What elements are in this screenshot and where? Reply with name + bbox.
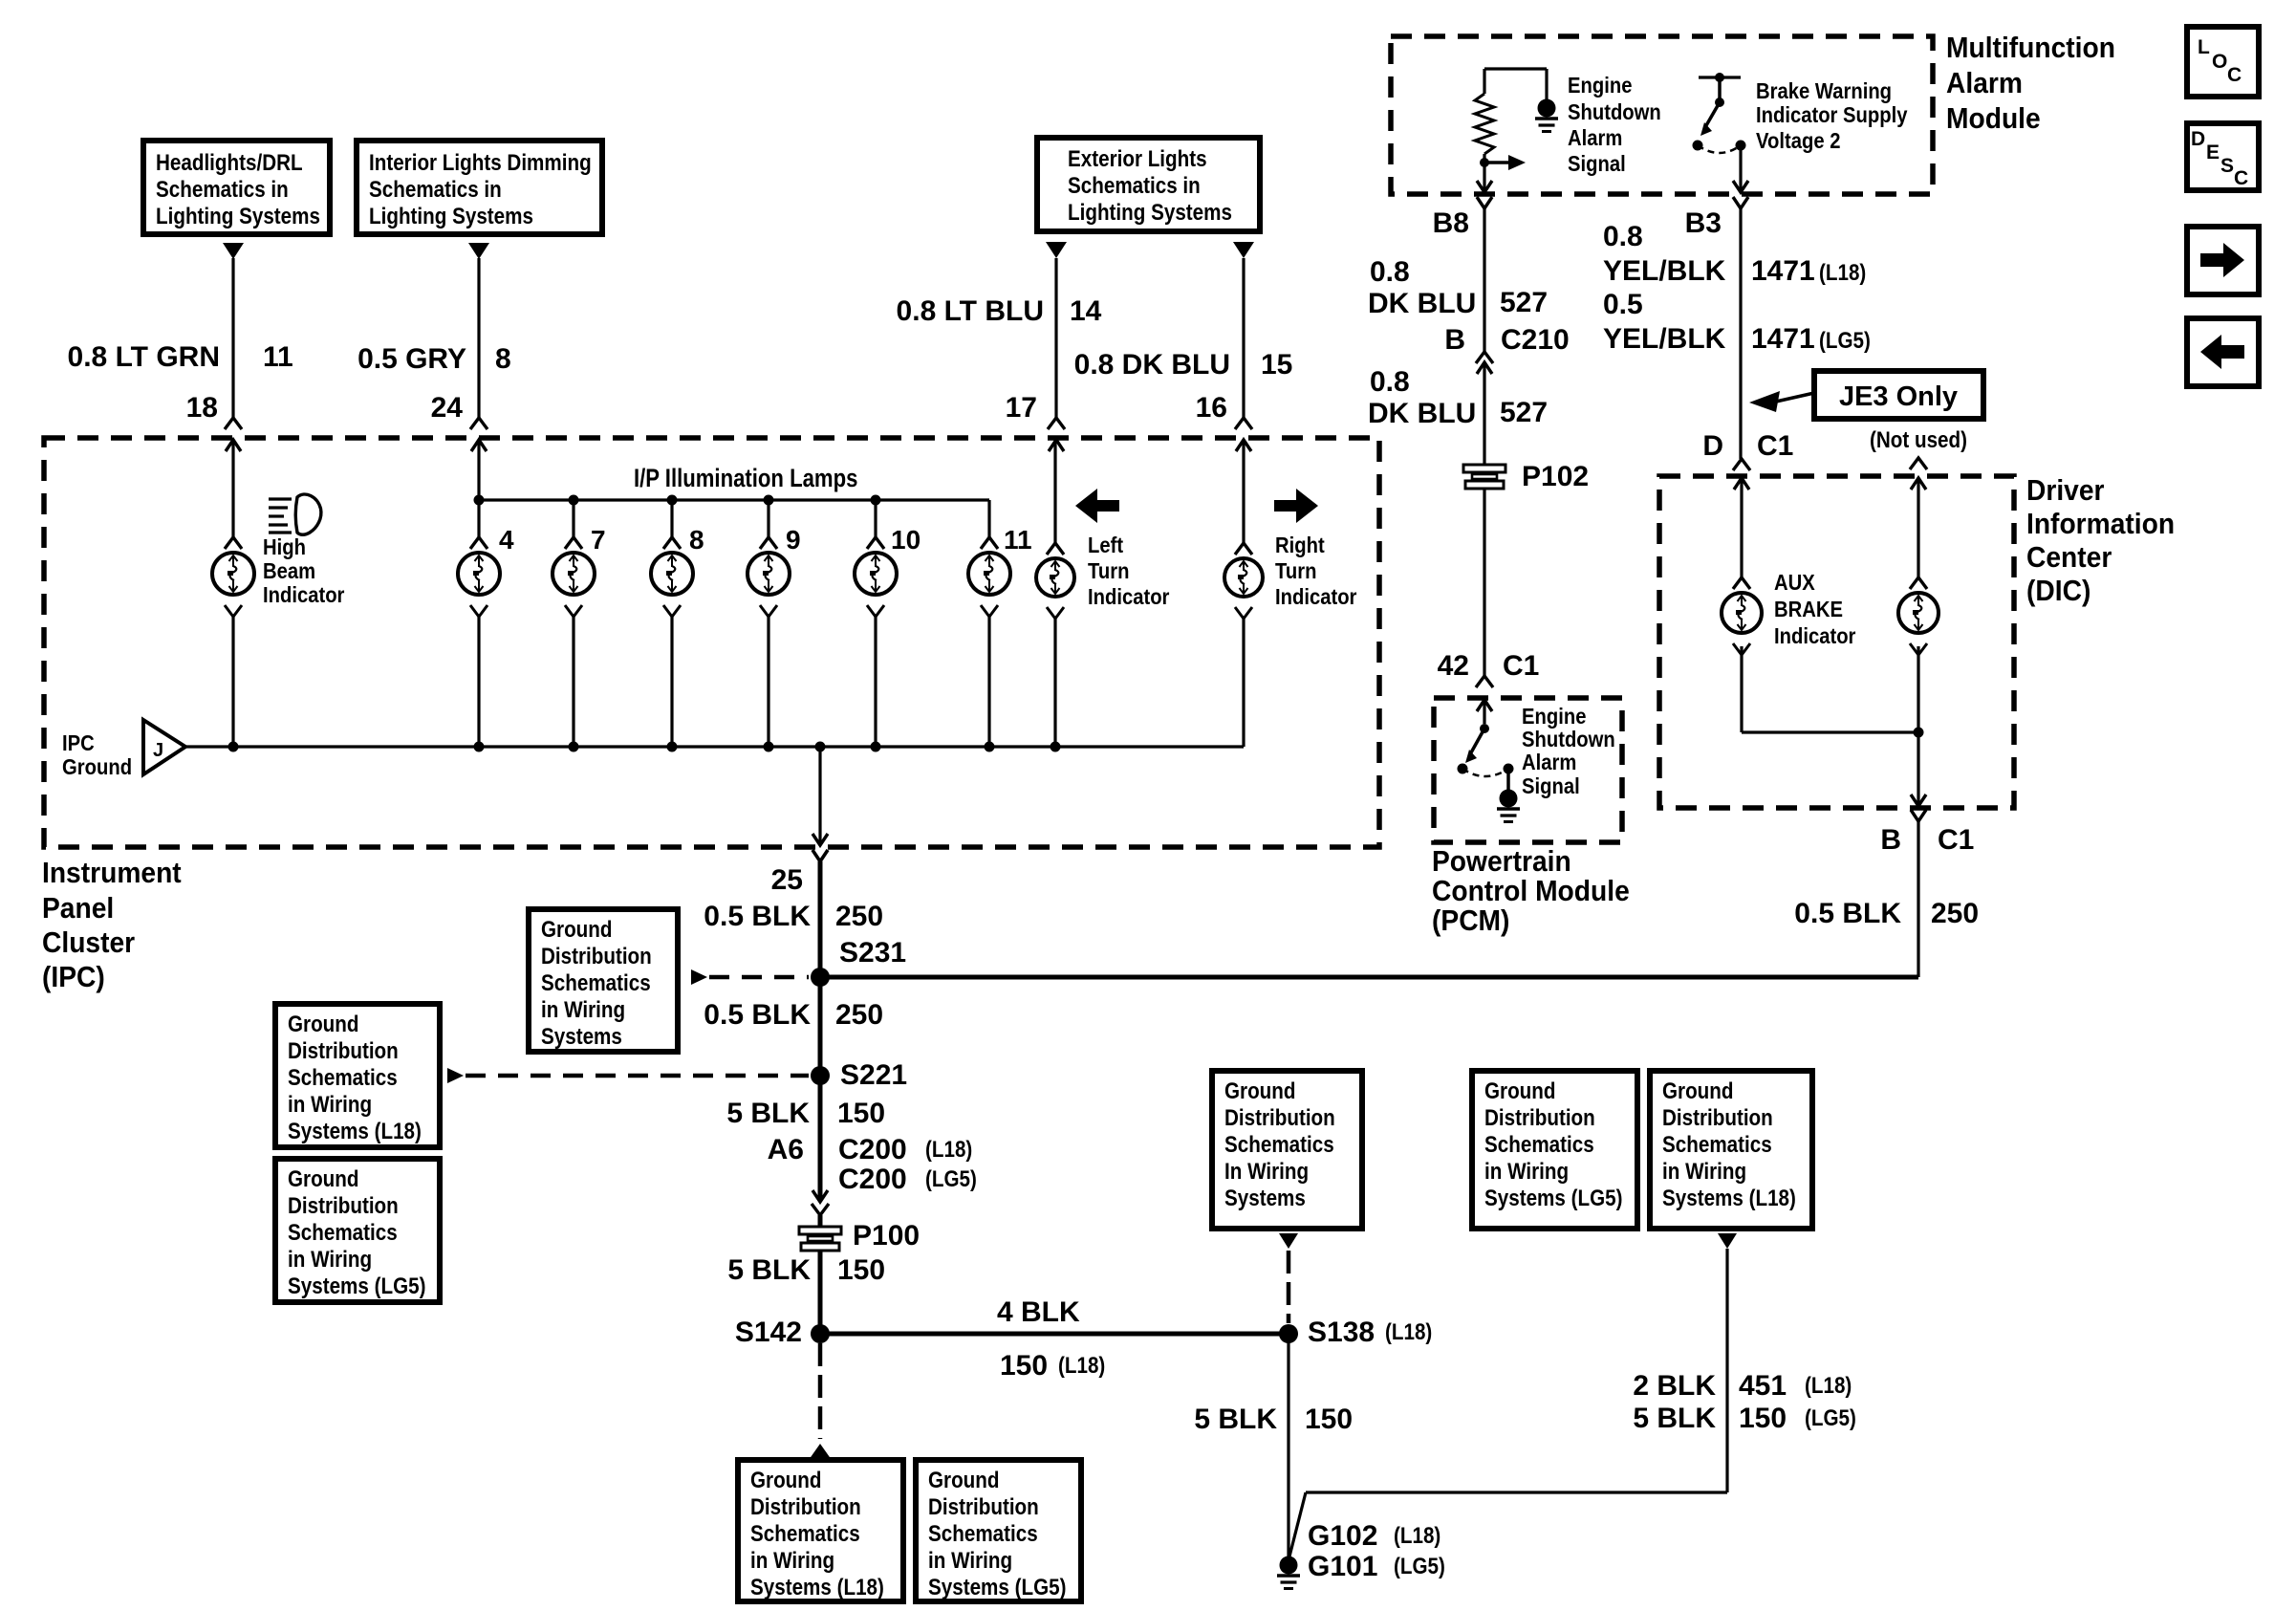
node on lamp bus at lamp 10 [871,495,881,506]
connector terminal pin 25 at IPC bottom [812,834,828,861]
svg-text:in Wiring: in Wiring [750,1548,834,1574]
svg-text:0.8 DK BLU: 0.8 DK BLU [1074,349,1230,381]
svg-text:Distribution: Distribution [750,1494,861,1520]
svg-text:Turn: Turn [1088,558,1129,584]
svg-text:C200: C200 [838,1164,907,1195]
ground G102/G101 [1277,1557,1300,1589]
pin label A6 [768,1134,804,1165]
svg-text:S231: S231 [839,937,906,969]
node on lamp bus at wire 24 [474,495,485,506]
svg-text:(DIC): (DIC) [2026,575,2090,608]
I/P illumination lamp 2 [552,537,595,617]
connector fork at PCM pin 42 [1476,676,1493,687]
wire left turn lamp to ground bus [1053,619,1056,747]
pin label 42 [1438,650,1469,682]
I/P illumination lamp 4 [747,537,790,617]
reference box: Ground Distribution Schematics in Wiring Systems (L18) bottom [738,1460,903,1601]
wire 0.8 LT BLU ckt 14 (left turn to IPC pin 17) [1054,258,1057,418]
wire label 527 (upper) [1500,287,1548,318]
internal ground drop in module [1545,69,1548,99]
label Right Turn Indicator [1275,533,1357,610]
svg-text:D: D [1702,430,1723,462]
svg-text:Alarm: Alarm [1568,125,1622,151]
svg-text:Schematics: Schematics [928,1521,1038,1547]
riser to I/P lamp pin 8 [670,500,673,537]
wire right turn lamp down to ground bus corner [1242,619,1245,747]
node on IPC ground bus x=916 [871,742,881,752]
switch throw dashed arc [1698,145,1741,153]
label AUX BRAKE Indicator [1774,570,1856,649]
svg-text:Beam: Beam [263,558,315,584]
svg-text:Indicator: Indicator [263,582,345,608]
svg-text:527: 527 [1500,397,1548,428]
svg-text:Cluster: Cluster [42,926,136,960]
svg-text:(Not used): (Not used) [1870,427,1967,453]
svg-text:11: 11 [263,341,293,373]
left turn indicator lamp [1036,543,1074,619]
ground symbol (engine shutdown alarm) [1535,99,1558,132]
node joining DIC lamps [1914,728,1924,738]
Driver Information Center dashed outline [1659,476,2014,808]
svg-text:Center: Center [2026,541,2112,575]
unused terminal fork [1910,458,1927,469]
riser to I/P lamp pin 11 [987,500,990,537]
svg-text:C210: C210 [1501,324,1570,356]
svg-text:527: 527 [1500,287,1548,318]
reference box: Ground Distribution Schematics in Wiring Systems (LG5) bottom [916,1460,1081,1601]
node on IPC ground bus x=858 [815,742,826,752]
pin label 8 [495,343,511,375]
brake warning switch fixed bar [1699,76,1741,78]
svg-text:Signal: Signal [1522,773,1580,799]
svg-text:(LG5): (LG5) [1394,1554,1445,1579]
svg-text:In Wiring: In Wiring [1224,1159,1309,1185]
node on IPC ground bus x=804 [764,742,774,752]
svg-text:5 BLK: 5 BLK [727,1254,811,1286]
connector fork below module (B8) [1477,197,1492,208]
svg-text:Multifunction: Multifunction [1946,32,2115,65]
connector label C1 (DIC B) [1938,824,1974,856]
svg-text:Ground: Ground [62,754,132,780]
svg-text:Indicator Supply: Indicator Supply [1756,102,1908,128]
label Brake Warning Indicator Supply Voltage 2 [1756,78,1908,154]
svg-text:DK BLU: DK BLU [1368,288,1476,319]
svg-text:Systems (LG5): Systems (LG5) [1484,1186,1622,1211]
splice label S231 [839,937,906,969]
wire label 5 BLK (right) [1633,1403,1716,1434]
svg-text:(L18): (L18) [1819,260,1866,286]
svg-text:DK BLU: DK BLU [1368,398,1476,429]
svg-text:11: 11 [1004,525,1032,555]
svg-text:(IPC): (IPC) [42,961,105,994]
svg-text:Ground: Ground [1662,1078,1734,1104]
svg-text:B: B [1880,824,1901,856]
wire into PCM switch [1483,700,1485,724]
wire label DK BLU (lower) [1368,398,1476,429]
svg-text:C200: C200 [838,1134,907,1165]
pin label 25 [771,864,803,896]
svg-text:25: 25 [771,864,803,896]
svg-text:B8: B8 [1433,207,1469,239]
arrowhead from right L18 box [1718,1233,1737,1249]
svg-text:Distribution: Distribution [288,1193,399,1219]
node on IPC ground bus x=600 [569,742,579,752]
wire label 0.8 LT BLU [897,295,1044,327]
pin label B [1444,324,1465,356]
svg-text:Schematics: Schematics [541,970,651,996]
svg-text:Schematics: Schematics [288,1065,398,1091]
Multifunction Alarm Module name [1946,32,2115,136]
splice S221 [811,1066,830,1085]
connector fork below IPC (pin 25) [812,850,828,861]
svg-text:C: C [2234,167,2248,189]
label Left Turn Indicator [1088,533,1170,610]
right turn arrow icon [1274,489,1318,523]
wire label 0.5 BLK (DIC) [1794,898,1901,929]
connector label C200 (LG5) [838,1164,977,1195]
svg-text:Ground: Ground [750,1468,822,1493]
svg-text:Systems (LG5): Systems (LG5) [288,1274,425,1299]
high beam indicator lamp [212,537,254,617]
svg-text:(L18): (L18) [925,1137,972,1163]
wire IPC ground bus to pin 25 exit [818,747,821,845]
svg-text:17: 17 [1006,392,1037,424]
svg-text:0.8 LT GRN: 0.8 LT GRN [68,341,220,373]
node below resistor [1480,158,1489,167]
svg-text:Powertrain: Powertrain [1432,845,1571,879]
splice S231 [811,968,830,987]
svg-text:BRAKE: BRAKE [1774,597,1843,622]
wire C200 to P100 [818,1215,823,1334]
pin label B8 [1433,207,1469,239]
connector label C200 (L18) [838,1134,972,1165]
wire 0.8 DK BLU ckt 15 (right turn to IPC pin 16) [1242,258,1245,418]
svg-text:Distribution: Distribution [1224,1105,1335,1131]
pin label 17 [1006,392,1037,424]
arrowhead from Headlights/DRL box [223,243,244,259]
connector terminal pin 17 at IPC [1048,418,1065,451]
wire 0.8 DK BLU 527 (B8 to C210) [1483,208,1485,352]
svg-text:Systems: Systems [541,1024,622,1050]
splice label S138 (L18) [1308,1317,1432,1348]
wire 0.5 BLK 250 (S231 to S221) [818,977,823,1076]
PCM switch contact right [1504,764,1514,774]
svg-text:14: 14 [1070,295,1102,327]
svg-text:18: 18 [186,392,218,424]
reference box: Interior Lights Dimming Schematics in Lighting Systems [357,141,602,234]
svg-text:Schematics in: Schematics in [1068,173,1201,199]
engine shutdown alarm signal arrow [1484,155,1526,170]
svg-text:J: J [153,740,163,761]
wire I/P lamp 3 to ground bus [670,617,673,747]
arrowhead from S138 box [1279,1233,1298,1249]
wire 0.5 BLK 250 (IPC to S231) [818,861,823,977]
wire 1471 (B3 to DIC pin D) [1739,208,1742,459]
svg-text:0.5 BLK: 0.5 BLK [1794,898,1901,929]
I/P illumination lamp 6 [968,537,1010,617]
IPC internal ground bus [185,745,1244,748]
svg-text:Driver: Driver [2026,474,2105,508]
reference box: Headlights/DRL Schematics in Lighting Systems [143,141,330,234]
svg-text:Ground: Ground [928,1468,1000,1493]
label Engine Shutdown Alarm Signal (module) [1568,73,1661,177]
pin label B (DIC) [1880,824,1901,856]
wire AUX BRAKE lamp to junction [1742,646,1918,732]
I/P illumination lamp 1 [458,537,500,617]
svg-text:250: 250 [1931,898,1979,929]
wire 4 BLK 150 (S142 to S138) [820,1332,1289,1337]
label I/P Illumination Lamps [634,465,857,493]
riser to I/P lamp pin 10 [874,500,877,537]
svg-text:Voltage 2: Voltage 2 [1756,128,1840,154]
wire 2 BLK 451 / 5 BLK 150 to ground [1289,1249,1727,1557]
terminal arrow inside DIC (not used pin) [1911,478,1926,490]
svg-text:150: 150 [1000,1350,1048,1382]
node on IPC ground bus x=1104 [1051,742,1061,752]
svg-text:(L18): (L18) [1805,1373,1852,1399]
wire label 0.8 DK BLU [1074,349,1230,381]
svg-text:Module: Module [1946,102,2041,136]
dashed wire to S138 [1287,1251,1291,1323]
wire label 2 BLK [1633,1370,1716,1402]
switch contact right [1736,141,1746,151]
svg-text:9: 9 [786,525,801,555]
wire from IPC pin 24 to I/P lamp bus [477,440,480,537]
svg-text:JE3 Only: JE3 Only [1839,381,1958,412]
PCM name [1432,845,1630,938]
PCM switch contact left [1458,764,1468,774]
svg-text:Signal: Signal [1568,151,1626,177]
svg-text:0.8: 0.8 [1603,221,1643,252]
svg-text:Indicator: Indicator [1774,623,1856,649]
switch stem [1718,77,1722,102]
svg-text:250: 250 [835,999,883,1031]
svg-text:0.8 LT BLU: 0.8 LT BLU [897,295,1044,327]
left turn arrow icon [1075,489,1119,523]
riser to I/P lamp pin 7 [572,500,574,537]
svg-text:Headlights/DRL: Headlights/DRL [156,150,303,176]
label P102 [1522,461,1589,492]
wire label 150 (S221) [837,1098,885,1129]
svg-text:Schematics: Schematics [1662,1132,1772,1158]
reference box: Ground Distribution Schematics in Wiring Systems (L18) left [275,1004,440,1147]
wire junction to module pin B8 [1483,163,1485,192]
legend icon DESC [2187,123,2259,190]
wire label YEL/BLK (L18) [1603,255,1726,287]
svg-text:Distribution: Distribution [928,1494,1039,1520]
in-line connector C200 [812,1190,829,1215]
svg-text:I/P Illumination Lamps: I/P Illumination Lamps [634,465,857,493]
node on bar [1715,73,1724,82]
svg-text:C1: C1 [1938,824,1974,856]
pin label 11 (lamp) [1004,525,1032,555]
terminal arrow at module edge (B8) [1477,181,1492,192]
svg-text:Distribution: Distribution [1484,1105,1595,1131]
wire label 0.5 GRY [357,343,466,375]
wire 527 from P102 to PCM pin 42 [1483,490,1485,676]
wire label 0.5 BLK (upper) [704,901,811,932]
PCM switch pivot node [1480,724,1489,733]
label (Not used) [1870,427,1967,453]
svg-text:Lighting Systems: Lighting Systems [156,204,320,229]
svg-text:Instrument: Instrument [42,857,182,890]
svg-text:Schematics in: Schematics in [156,177,289,203]
svg-text:Alarm: Alarm [1946,67,2023,100]
svg-text:in Wiring: in Wiring [288,1247,372,1273]
wire I/P lamp 2 to ground bus [572,617,574,747]
pin label 7 [591,525,606,555]
svg-text:Schematics: Schematics [1224,1132,1334,1158]
wire 0.8 LT GRN ckt 11 (Headlights/DRL to IPC pin 18) [231,258,234,418]
svg-text:Distribution: Distribution [288,1038,399,1064]
wire label 451 (L18) [1739,1370,1852,1402]
wire high beam lamp to IPC ground bus [231,617,234,747]
connector label C1 (DIC D) [1757,430,1793,462]
svg-text:Engine: Engine [1522,704,1586,729]
dashed leader to S231 [691,969,809,985]
svg-text:YEL/BLK: YEL/BLK [1603,255,1726,287]
connector fork below module (B3) [1733,197,1748,208]
svg-text:Ground: Ground [288,1012,359,1037]
reference box: Exterior Lights Schematics in Lighting Systems [1037,138,1260,231]
svg-text:IPC: IPC [62,730,95,756]
svg-text:A6: A6 [768,1134,804,1165]
wire 5 BLK 150 (S221 to C200) [818,1076,823,1201]
svg-text:4: 4 [499,525,514,555]
in-line connector C210 [1476,352,1493,374]
connector terminal pin 18 at IPC [225,418,242,451]
svg-text:0.8: 0.8 [1370,256,1410,288]
svg-text:Lighting Systems: Lighting Systems [1068,200,1232,226]
svg-text:in Wiring: in Wiring [288,1092,372,1118]
suffix (L18) for 1471 [1819,260,1866,286]
legend icon LOC [2187,27,2259,97]
wire DIC pin D to AUX BRAKE lamp [1740,478,1743,577]
wire I/P lamp 6 to ground bus [987,617,990,747]
wire label 5 BLK (P100) [727,1254,811,1286]
wire 0.8 DK BLU 527 (C210 to P102) [1483,362,1485,465]
wire label DK BLU (upper) [1368,288,1476,319]
pin label D [1702,430,1723,462]
svg-text:8: 8 [495,343,511,375]
wire label 0.8 (1471 L18) [1603,221,1643,252]
reference box: Ground Distribution Schematics in Wiring Systems (LG5) right [1472,1071,1637,1229]
Multifunction Alarm Module dashed outline [1391,36,1933,194]
svg-text:0.8: 0.8 [1370,366,1410,398]
pin label B3 [1685,207,1722,239]
connector label C210 [1501,324,1570,356]
wire 0.5 BLK 250 from DIC to S231 [820,821,1918,977]
connector fork at DIC pin D [1733,459,1750,470]
svg-text:0.5: 0.5 [1603,289,1643,320]
pin label 15 [1261,349,1292,381]
svg-text:5 BLK: 5 BLK [1633,1403,1716,1434]
svg-text:150: 150 [837,1254,885,1286]
wire not-used pin to second lamp [1917,478,1919,577]
svg-text:S142: S142 [735,1317,802,1348]
svg-text:0.5 BLK: 0.5 BLK [704,999,811,1031]
svg-text:S221: S221 [840,1059,907,1091]
node on IPC ground bus x=244 [228,742,239,752]
wire resistor top link [1484,69,1547,94]
svg-text:Control Module: Control Module [1432,875,1630,908]
svg-text:4 BLK: 4 BLK [997,1296,1080,1328]
svg-text:0.5 BLK: 0.5 BLK [704,901,811,932]
node on IPC ground bus x=1035 [985,742,995,752]
connector label C1 (PCM) [1503,650,1539,682]
svg-text:Exterior Lights: Exterior Lights [1068,146,1207,172]
wire I/P lamp 4 to ground bus [767,617,769,747]
wire label 5 BLK (S221) [726,1098,810,1129]
wire label 1471 (LG5) [1751,323,1815,355]
riser to I/P lamp pin 9 [767,500,769,537]
svg-text:L: L [2198,36,2210,58]
svg-text:in Wiring: in Wiring [541,997,625,1023]
splice S138 [1279,1324,1298,1343]
reference box: Ground Distribution Schematics in Wiring Systems (S231) [529,909,678,1052]
terminal arrow inside PCM [1477,700,1492,711]
AUX BRAKE indicator lamp [1722,577,1762,655]
svg-text:Indicator: Indicator [1275,584,1357,610]
wire right contact to module pin B3 [1739,145,1742,190]
connector fork below DIC (pin B) [1911,810,1926,821]
svg-text:Alarm: Alarm [1522,750,1576,775]
svg-text:Schematics: Schematics [750,1521,860,1547]
svg-text:Ground: Ground [541,917,613,943]
wire label 250 (upper) [835,901,883,932]
svg-text:451: 451 [1739,1370,1787,1402]
wire from IPC pin 18 to high beam indicator lamp [231,440,234,537]
svg-text:Lighting Systems: Lighting Systems [369,204,533,229]
svg-text:G102: G102 [1308,1520,1377,1552]
wire I/P lamp 1 to ground bus [477,617,480,747]
wire second lamp to DIC pin B [1917,646,1919,806]
svg-text:Schematics: Schematics [1484,1132,1594,1158]
svg-text:AUX: AUX [1774,570,1815,596]
svg-text:250: 250 [835,901,883,932]
wire label 0.8 (lower) [1370,366,1410,398]
svg-text:C1: C1 [1757,430,1793,462]
svg-text:Brake Warning: Brake Warning [1756,78,1892,104]
wire from IPC pin 16 to right turn lamp [1242,440,1245,543]
svg-text:Systems (L18): Systems (L18) [288,1119,422,1144]
wire 5 BLK 150 (S138 to G102/G101) [1287,1334,1289,1557]
IPC ground buffer symbol J [143,720,185,774]
wire label 527 (lower) [1500,397,1548,428]
pin label 10 [891,525,921,555]
pin label 9 [786,525,801,555]
ground symbol (PCM engine shutdown alarm) [1497,790,1520,822]
splice S142 [811,1324,830,1343]
svg-text:in Wiring: in Wiring [928,1548,1012,1574]
svg-text:2 BLK: 2 BLK [1633,1370,1716,1402]
svg-text:(PCM): (PCM) [1432,904,1509,938]
label Engine Shutdown Alarm Signal (PCM) [1522,704,1615,799]
arrowhead to Exterior Lights box (right) [1233,242,1254,258]
ground label G102 (L18) [1308,1520,1440,1552]
legend icon back arrow [2187,318,2259,386]
arrowhead from Interior Lights Dimming box [468,243,489,259]
wire label 250 (DIC) [1931,898,1979,929]
svg-text:8: 8 [689,525,704,555]
svg-text:High: High [263,534,306,560]
node on IPC ground bus x=501 [474,742,485,752]
svg-text:(LG5): (LG5) [1819,328,1871,354]
svg-text:Shutdown: Shutdown [1568,99,1661,125]
terminal arrow inside DIC (pin D) [1734,478,1749,490]
connector terminal pin 16 at IPC [1235,418,1252,451]
label IPC Ground [62,730,132,780]
